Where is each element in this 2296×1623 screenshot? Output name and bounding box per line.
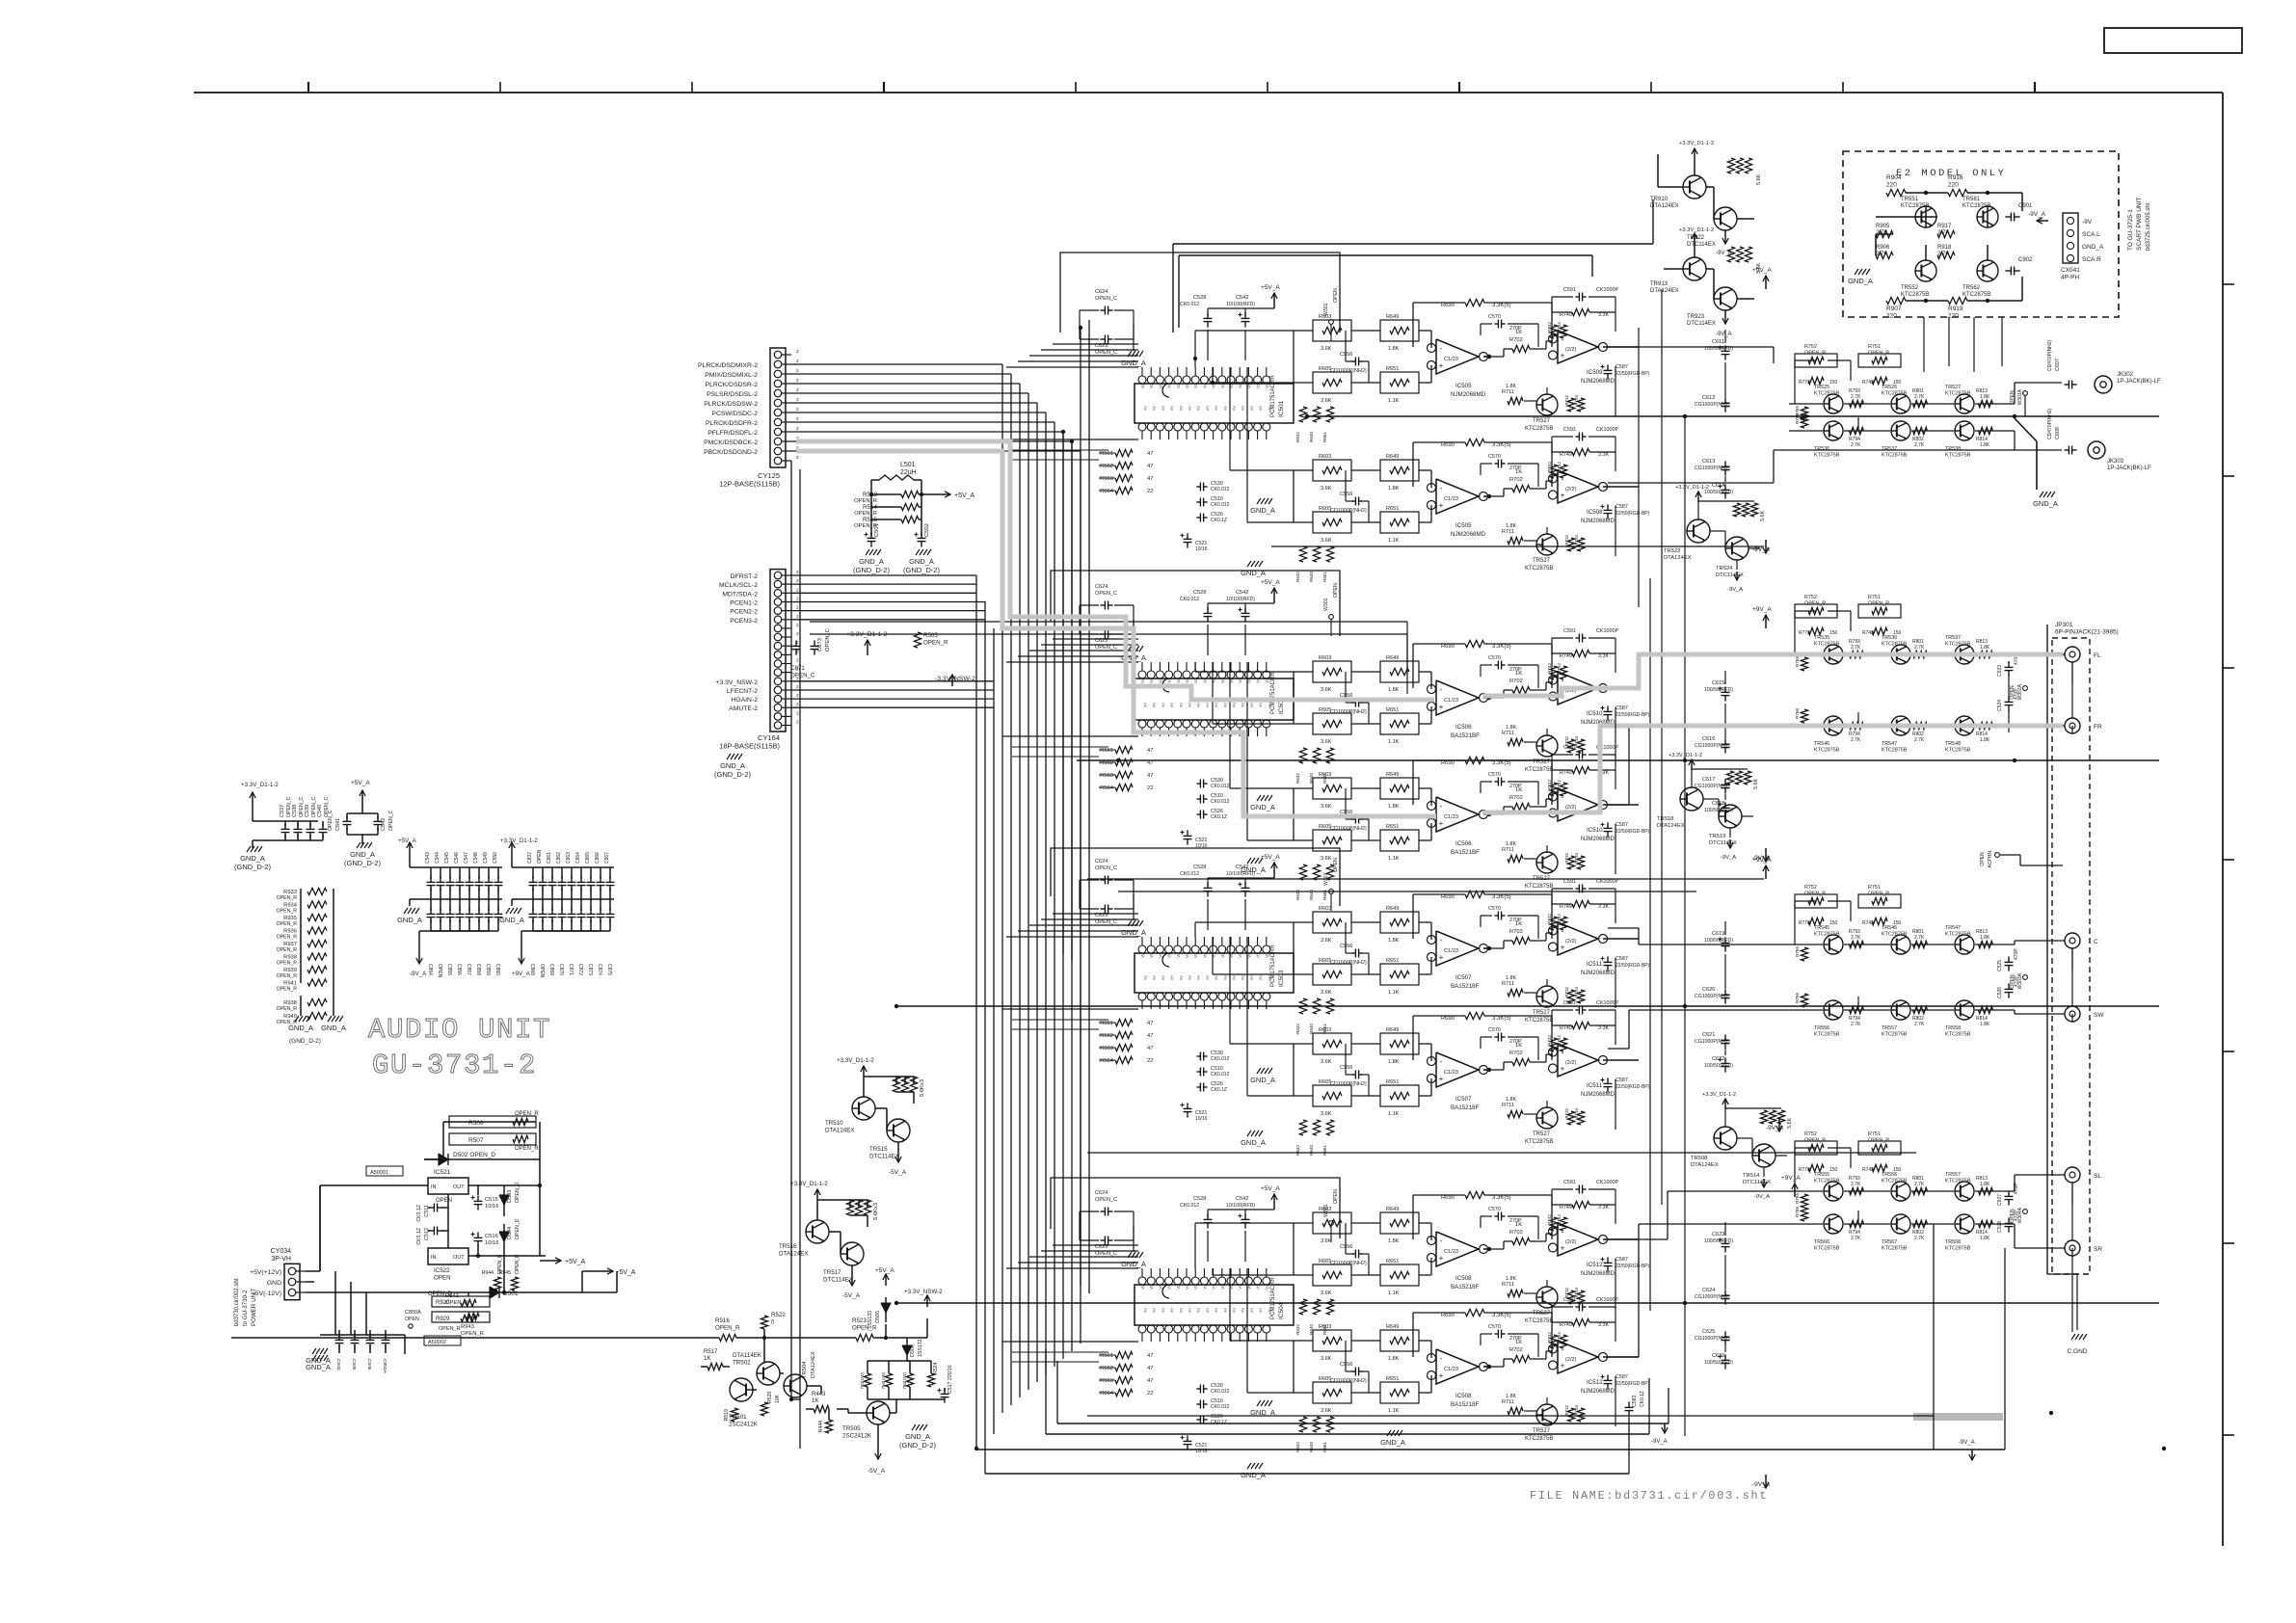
svg-text:C591: C591 [1563,427,1576,433]
svg-text:R766: R766 [1795,1207,1800,1217]
strip6 transistor TR527 KTC2875B [1536,1107,1558,1129]
svg-text:22/50(RGD-BP): 22/50(RGD-BP) [1615,1264,1650,1269]
svg-text:R742: R742 [1862,920,1874,926]
svg-text:C587: C587 [1615,822,1628,828]
svg-text:C587: C587 [1615,1078,1628,1083]
svg-text:2: 2 [796,378,799,384]
svg-text:KTC2875B: KTC2875B [1882,748,1908,754]
svg-text:R765: R765 [1795,946,1800,957]
svg-text:R742: R742 [1547,462,1552,472]
svg-text:+: + [1439,361,1444,370]
svg-text:R711: R711 [1502,981,1514,987]
svg-text:D505: D505 [875,1311,881,1323]
svg-text:TR545: TR545 [1814,925,1829,931]
svg-text:R640: R640 [1309,1145,1314,1156]
svg-text:R742: R742 [1862,1167,1874,1173]
svg-text:C502: C502 [924,523,930,537]
svg-text:47: 47 [1147,1021,1153,1026]
strip3 resistor R702 1K [1512,686,1530,693]
svg-text:C528: C528 [1193,865,1206,870]
svg-text:R562: R562 [1100,464,1113,469]
resistor stack below IC501 [1115,449,1133,456]
svg-text:R752: R752 [1804,595,1817,600]
svg-text:C613: C613 [1702,459,1715,465]
svg-text:TR517: TR517 [823,1269,841,1276]
svg-text:1.8K: 1.8K [1980,737,1990,743]
svg-text:GND_A: GND_A [350,850,375,859]
svg-text:PLRCK/DSDSR-2: PLRCK/DSDSR-2 [706,382,759,388]
svg-text:R603: R603 [1319,655,1331,661]
svg-text:A50001: A50001 [370,1170,388,1176]
svg-text:BA15218F: BA15218F [1451,1401,1479,1408]
svg-text:-: - [1562,677,1564,685]
svg-text:-5V_A: -5V_A [868,1468,886,1475]
svg-text:OPEN_R: OPEN_R [277,947,298,953]
resistor R917 2.7K [1937,230,1955,237]
svg-text:C540: C540 [317,805,323,817]
svg-text:R702: R702 [1509,795,1523,801]
svg-text:GND_A: GND_A [1241,1138,1266,1147]
svg-text:C.GND: C.GND [2068,1348,2088,1355]
label A50001 a [366,1166,403,1176]
svg-text:OPEN_C: OPEN_C [1095,865,1117,871]
svg-text:CD1000P(NH2): CD1000P(NH2) [1330,709,1367,715]
svg-text:C866: C866 [595,852,601,864]
strip1 capacitor C587 22/50 [1607,364,1609,370]
svg-text:CK0.012: CK0.012 [1180,302,1199,307]
ground below IC504 [1247,1463,1251,1469]
svg-text:CK0.012: CK0.012 [1180,871,1199,877]
svg-text:OPEN_R: OPEN_R [515,1254,521,1274]
svg-text:-: - [1440,1237,1443,1245]
capacitor C616 CG1000P [1724,738,1726,744]
svg-text:100/50(RFD): 100/50(RFD) [1704,687,1733,693]
ground GND_A below C502 [916,549,920,555]
strip5 op-amp IC511 [1558,922,1598,955]
svg-text:2.7K: 2.7K [1851,935,1861,941]
svg-text:OPEN_C: OPEN_C [328,810,334,831]
svg-text:C515: C515 [485,1197,498,1203]
svg-text:KTC2875B: KTC2875B [1945,932,1971,938]
svg-text:R649: R649 [1386,772,1399,778]
svg-text:R661: R661 [1322,572,1327,582]
capacitor C623 100/50 [1724,1237,1726,1243]
svg-text:R711: R711 [1502,529,1514,535]
resistors R944 R945 OPEN_R [494,1277,500,1290]
svg-text:R711: R711 [1502,731,1514,736]
strip7 resistor R603 3.6K [1313,1212,1351,1234]
svg-text:C622: C622 [1712,1056,1724,1062]
svg-text:KTC2875B: KTC2875B [1525,1436,1553,1442]
svg-text:R507: R507 [468,1137,484,1144]
resistor R506 OPEN_R [449,1116,536,1128]
svg-text:DTA124EX: DTA124EX [1657,823,1685,829]
svg-text:3.3K: 3.3K [1598,1322,1609,1328]
svg-text:-: - [1562,927,1564,936]
svg-text:Vo: Vo [1265,1284,1269,1290]
capacitor C619 100/50 [1724,937,1726,943]
ground right below IC503 [1257,1068,1261,1074]
svg-text:R561: R561 [1100,1353,1113,1359]
svg-text:C871: C871 [568,964,574,975]
svg-text:W303A: W303A [2017,972,2023,989]
svg-text:OPEN: OPEN [437,964,442,978]
svg-text:Vo: Vo [1212,1284,1216,1290]
svg-text:3.6K: 3.6K [1321,1356,1332,1362]
svg-text:TR547: TR547 [1945,925,1961,931]
svg-text:(2/2): (2/2) [1565,805,1577,811]
capacitor C615 100/50 [1724,686,1726,692]
svg-text:OPEN_C: OPEN_C [1095,350,1117,356]
svg-text:R944: R944 [482,1270,494,1276]
svg-text:R920: R920 [436,1300,450,1306]
wire cap column [1724,1222,1726,1236]
strip2 op-amp IC508 [1558,470,1598,503]
jack JK302 1P-JACK [2095,376,2112,393]
svg-text:1.8K: 1.8K [1388,346,1400,352]
JP301 pin FL [2065,647,2080,662]
svg-text:2: 2 [796,368,799,374]
strip6 resistor feedback 3.3K [1465,1012,1484,1019]
svg-text:22/50(RGD-BP): 22/50(RGD-BP) [1615,371,1650,377]
svg-text:R690: R690 [1441,760,1455,766]
svg-text:PCM1751ACRR: PCM1751ACRR [1270,945,1276,987]
border right line [2222,93,2224,1546]
power block wires [306,1270,320,1272]
svg-text:R632: R632 [1295,572,1300,582]
svg-text:R640: R640 [1309,572,1314,582]
svg-text:C619: C619 [1712,931,1724,937]
svg-text:Vo: Vo [1193,383,1198,388]
strip6 resistor pair right of TR [1567,1111,1574,1125]
strip6 resistor pair at op-amp2 [1550,1038,1557,1051]
svg-text:OPEN_R: OPEN_R [277,1006,298,1012]
svg-text:-9V_A: -9V_A [1959,1440,1975,1446]
svg-text:100/50(RFD): 100/50(RFD) [1704,938,1733,944]
resistor 2.7K bank0 col1 [1913,400,1928,407]
svg-text:2: 2 [796,416,799,422]
svg-text:C869: C869 [548,964,554,975]
svg-text:C528: C528 [1997,1221,2003,1233]
resistor 30K bank0 [1801,407,1807,420]
ground GND_A below C501 [866,549,869,555]
open ACPHN [1995,853,2000,858]
svg-text:Vo: Vo [1176,383,1181,388]
strip4 resistor R651 1.1K [1380,830,1419,851]
transistor bank1 bottom col1 [1891,716,1910,735]
W30x OPEN vertical IC504 [1329,1221,1334,1226]
svg-text:GND_A: GND_A [397,916,422,924]
svg-text:CD1000P(NH2): CD1000P(NH2) [1330,1261,1367,1266]
capacitor C583 CK0.1Z [1628,1401,1630,1407]
strip5 resistor pair at op-amp2 [1550,917,1557,930]
svg-text:(GND_D-2): (GND_D-2) [903,566,940,574]
svg-text:TR527: TR527 [1533,1428,1551,1434]
svg-text:R916: R916 [1948,174,1963,181]
strip1 resistor feedback 3.3K [1465,299,1484,306]
svg-text:IC504: IC504 [1278,1302,1285,1319]
svg-text:1K: 1K [812,1398,818,1404]
strip1 op-amp IC509 [1558,331,1598,363]
strip8 capacitor 270P feedback [1494,1333,1498,1335]
svg-text:12P-BASE(S115B): 12P-BASE(S115B) [719,480,780,489]
svg-text:D504: D504 [507,1227,513,1239]
strip6 op-amp IC507 BA15218F [1436,1052,1479,1087]
svg-text:OPEN_C: OPEN_C [1095,1197,1117,1203]
svg-text:R773: R773 [1799,630,1810,636]
svg-text:C587: C587 [1615,1257,1628,1263]
svg-text:150: 150 [1829,630,1838,636]
svg-text:+5V_A: +5V_A [398,838,417,844]
svg-text:C528: C528 [1193,295,1206,301]
svg-text:-9V_A: -9V_A [410,971,427,977]
capacitor C614 100/50 [1724,484,1726,490]
svg-text:C1/23: C1/23 [1444,948,1458,954]
svg-text:2.7K: 2.7K [1914,1022,1925,1027]
ground GND_A bm [912,1424,916,1430]
svg-text:DTC114EX: DTC114EX [1687,321,1716,327]
svg-text:C542: C542 [1236,590,1248,596]
resistor 2.7K bank2 col1 [1913,941,1928,947]
W30x OPEN vertical IC501 [1329,320,1334,325]
svg-text:Vo: Vo [1238,952,1242,958]
svg-text:(GND_D-2): (GND_D-2) [289,1038,321,1045]
svg-text:Vo: Vo [1265,678,1269,683]
resistor OPEN_R bank2 col1 [1858,894,1901,908]
svg-text:GND_A: GND_A [240,854,265,863]
ground left of IC504 [1128,1252,1132,1258]
svg-text:2: 2 [796,578,799,584]
svg-text:2: 2 [796,359,799,364]
capacitor C625 CG1000P [1724,1331,1726,1337]
svg-text:C1/23: C1/23 [1444,1070,1458,1076]
resistor 30K bank2 [1801,947,1807,961]
svg-text:C546: C546 [454,852,460,864]
svg-text:C624: C624 [1702,1288,1715,1293]
svg-text:Vo: Vo [1140,952,1145,958]
svg-text:TR524: TR524 [1716,566,1733,572]
transistor TR923 DTC114EX [1714,287,1737,310]
svg-text:C591: C591 [1563,879,1576,885]
svg-text:C542: C542 [1236,1196,1248,1202]
svg-text:PLRCK/DSDSW-2: PLRCK/DSDSW-2 [704,401,758,408]
svg-text:IC521: IC521 [434,1169,451,1176]
svg-text:R945: R945 [499,1270,512,1276]
svg-text:(2/2): (2/2) [1565,1239,1577,1245]
strip4 resistor trio below strip [1299,865,1306,880]
svg-text:OPEN_R: OPEN_R [1804,601,1826,607]
svg-text:+3.3V_D1-1-2: +3.3V_D1-1-2 [837,1057,874,1064]
svg-text:R561: R561 [1100,1021,1113,1026]
strip5 resistor R605 3.6K [1313,964,1351,985]
svg-text:R603: R603 [1319,1207,1331,1212]
svg-text:R742: R742 [1547,1214,1552,1225]
svg-text:R651: R651 [1386,958,1399,964]
svg-text:KTC2875B: KTC2875B [1901,203,1929,209]
svg-text:CK0.012: CK0.012 [1211,502,1230,508]
svg-text:NJM2068MD: NJM2068MD [1581,971,1615,976]
resistor R919 220 [1948,297,1967,304]
svg-text:IC511: IC511 [1587,961,1603,968]
svg-text:CD1000P(NH2): CD1000P(NH2) [1330,368,1367,374]
svg-text:3.3K: 3.3K [1598,1025,1609,1031]
strip8 resistor feedback 3.3K [1465,1309,1484,1316]
svg-text:1K: 1K [1515,1222,1522,1228]
svg-text:ACPHN: ACPHN [1988,851,1993,868]
svg-text:C626: C626 [1712,1353,1724,1359]
strip7 capacitor CK1000P over op-amp2 [1575,1188,1579,1190]
svg-text:3.3K(5): 3.3K(5) [1492,1195,1511,1201]
svg-text:R640: R640 [1309,432,1314,442]
svg-text:-: - [1440,1057,1443,1066]
svg-text:KTC2875B: KTC2875B [1945,453,1971,459]
svg-text:Vo: Vo [1158,1284,1162,1290]
ground left of IC501 [1128,351,1132,357]
svg-text:470P: 470P [2014,948,2019,960]
svg-text:R734: R734 [1574,394,1579,405]
svg-text:18P-BASE(S115B): 18P-BASE(S115B) [719,742,780,751]
svg-text:R732: R732 [1564,1287,1569,1297]
capacitors above IC504 [1207,1213,1209,1219]
svg-text:C617: C617 [1702,777,1715,783]
svg-text:IN: IN [431,1255,437,1261]
svg-text:R632: R632 [1295,1442,1300,1452]
strip8 capacitor C556 CD1000P [1351,1370,1355,1372]
svg-text:R734: R734 [1574,1404,1579,1415]
svg-text:CK0.1Z: CK0.1Z [1211,814,1227,820]
svg-text:C901: C901 [2018,203,2033,209]
resistor R444 150K [825,1420,832,1433]
ground below IC502 [1247,858,1251,864]
svg-text:Vo: Vo [1167,383,1172,388]
svg-text:+5V(+12V): +5V(+12V) [250,1269,281,1276]
svg-text:CK0.1Z: CK0.1Z [1640,1391,1645,1407]
transistor pair TR522/TR524 [1687,519,1710,543]
power arrow +9V_A [1765,865,1767,879]
svg-text:C570: C570 [1488,655,1501,661]
svg-text:C556: C556 [1340,1244,1352,1250]
svg-text:CD1000P(NH2): CD1000P(NH2) [1330,1378,1367,1384]
capacitor C871 OPEN_C [795,640,797,646]
svg-text:CK0.1Z: CK0.1Z [1211,518,1227,523]
strip2 capacitor C587 22/50 [1607,504,1609,510]
IC521 OPEN regulator [428,1178,468,1194]
svg-text:-: - [1562,335,1564,344]
strip7 capacitor C556 CD1000P [1351,1253,1355,1255]
svg-text:C556: C556 [1340,1362,1352,1368]
svg-text:Vo: Vo [1212,678,1216,683]
strip5 capacitor C556 CD1000P [1351,952,1355,954]
svg-text:CD470P(NH2): CD470P(NH2) [2047,339,2053,371]
strip1 resistor R603 3.6K [1313,320,1351,341]
svg-text:KTC2875B: KTC2875B [1814,453,1840,459]
svg-text:TR551: TR551 [1901,197,1919,202]
svg-text:NJM2068MD: NJM2068MD [1581,1092,1615,1098]
svg-text:+3.3V_NSW-2: +3.3V_NSW-2 [904,1289,943,1295]
transistor TR562 KTC2875B [1977,260,1998,281]
strip2 op-amp IC505 NJM2068MD [1436,479,1479,514]
resistor R519 150K [731,1408,737,1422]
strip7 resistor pair right of TR [1567,1290,1574,1304]
svg-text:Vo: Vo [1140,1284,1145,1290]
svg-text:2.7K: 2.7K [1914,737,1925,743]
svg-text:CK0.012: CK0.012 [1211,1389,1230,1395]
svg-text:TR568: TR568 [1945,1239,1961,1245]
svg-text:+: + [1439,1371,1444,1380]
svg-text:GND_A: GND_A [2033,499,2058,508]
svg-text:D503: D503 [507,1190,513,1203]
svg-text:FILE NAME:bd3731.cir/003.sht: FILE NAME:bd3731.cir/003.sht [1530,1489,1768,1503]
svg-text:JP301: JP301 [2055,622,2073,628]
resistor OPEN_R bank3 col0 [1795,1141,1837,1155]
svg-text:OPEN_R: OPEN_R [461,1331,484,1337]
svg-text:1.1K: 1.1K [1388,856,1400,862]
svg-text:Vo: Vo [1167,1284,1172,1290]
resistor 1.8K bank2 [1979,941,1993,947]
ground GND_A in E2 box [1855,269,1858,275]
svg-text:TR527: TR527 [1533,418,1551,424]
svg-text:R734: R734 [1574,1107,1579,1118]
svg-text:TR552: TR552 [1901,285,1919,291]
svg-text:1.8K: 1.8K [1980,1022,1990,1027]
svg-text:OPEN_R: OPEN_R [1804,351,1826,357]
svg-text:Vo: Vo [1193,678,1198,683]
+3.3V arrow TRB [1694,233,1695,245]
resistor 2.7K bank0 col0 [1850,400,1864,407]
resistor R507 OPEN_R [449,1133,536,1145]
svg-text:D506: D506 [910,1344,916,1357]
svg-text:OPEN: OPEN [436,1198,452,1204]
ground GND_A below CY164 [727,754,731,759]
strip2 strip wires [1351,469,1380,471]
svg-text:+3.3V_D1-1-2: +3.3V_D1-1-2 [790,1181,828,1187]
transistor bank2 top col1 [1891,935,1910,954]
svg-text:(2/2): (2/2) [1565,487,1577,492]
svg-text:C624: C624 [1095,859,1108,865]
svg-text:+: + [1439,501,1444,510]
svg-text:DTA124EX: DTA124EX [811,1351,816,1378]
svg-text:10/100(RFD): 10/100(RFD) [1226,597,1255,602]
svg-text:Vo: Vo [1238,1284,1242,1290]
capacitor C608 CD470P [2064,449,2069,451]
svg-text:Vo: Vo [1176,1284,1181,1290]
svg-text:1.8K: 1.8K [1980,935,1990,941]
svg-text:C856: C856 [456,964,462,975]
svg-text:SCART PWB UNIT: SCART PWB UNIT [2136,198,2143,251]
svg-text:Vo: Vo [1265,952,1269,958]
svg-text:PCM1751ACRR: PCM1751ACRR [1270,375,1276,417]
connector CX041 4P-PH [2063,213,2078,263]
svg-text:GND_A: GND_A [1121,359,1146,367]
svg-text:C548: C548 [473,852,479,864]
transistor bank2 bottom col1 [1891,1000,1910,1020]
svg-text:OPEN.: OPEN. [2010,1208,2016,1223]
svg-text:3.3K(5): 3.3K(5) [1492,644,1511,650]
svg-text:R690: R690 [1441,442,1455,448]
strip6 capacitor CK1000P over op-amp2 [1575,1009,1579,1011]
svg-text:3.3K(5): 3.3K(5) [1492,1313,1511,1318]
capacitor C512 CK0.1Z [428,1230,434,1232]
svg-text:R506: R506 [468,1120,484,1127]
svg-text:3.6K: 3.6K [1321,1290,1332,1296]
strip5 resistor trio below strip [1299,998,1306,1014]
svg-text:150: 150 [1829,380,1838,386]
svg-text:IC506: IC506 [1455,840,1472,847]
strip8 op-amp IC512 [1558,1341,1598,1373]
svg-text:OPEN: OPEN [537,849,543,864]
svg-text:Vo: Vo [1256,678,1261,683]
svg-text:Vo: Vo [1256,1284,1261,1290]
